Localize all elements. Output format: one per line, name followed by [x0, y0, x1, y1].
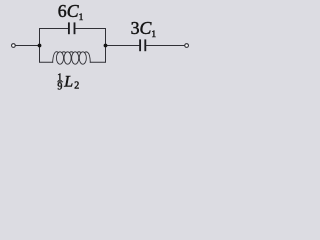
wire capacitor to top-right corner [75, 28, 105, 30]
capacitor 3C1 plates [140, 39, 145, 51]
wire bottom-left to inductor [40, 61, 53, 63]
node right junction [104, 44, 108, 48]
svg-text:9: 9 [57, 82, 62, 93]
capacitor 6C1 plates [69, 22, 75, 34]
node left junction [38, 44, 42, 48]
label 1/9 L2 fraction [57, 73, 63, 93]
wire left vertical (parallel box left side) [39, 29, 41, 63]
inductor L2 coil [53, 52, 91, 65]
wire capacitor 3C1 to right terminal [146, 45, 184, 47]
right terminal [185, 44, 189, 48]
wire right junction to capacitor 3C1 [106, 45, 140, 47]
svg-text:L: L [63, 73, 73, 90]
wire right vertical (parallel box right side) [105, 29, 107, 63]
wire inductor to bottom-right corner [90, 61, 105, 63]
left terminal [12, 44, 16, 48]
wire left terminal to junction [15, 45, 39, 47]
svg-text:2: 2 [74, 81, 79, 92]
wire top-left to capacitor [40, 28, 68, 30]
